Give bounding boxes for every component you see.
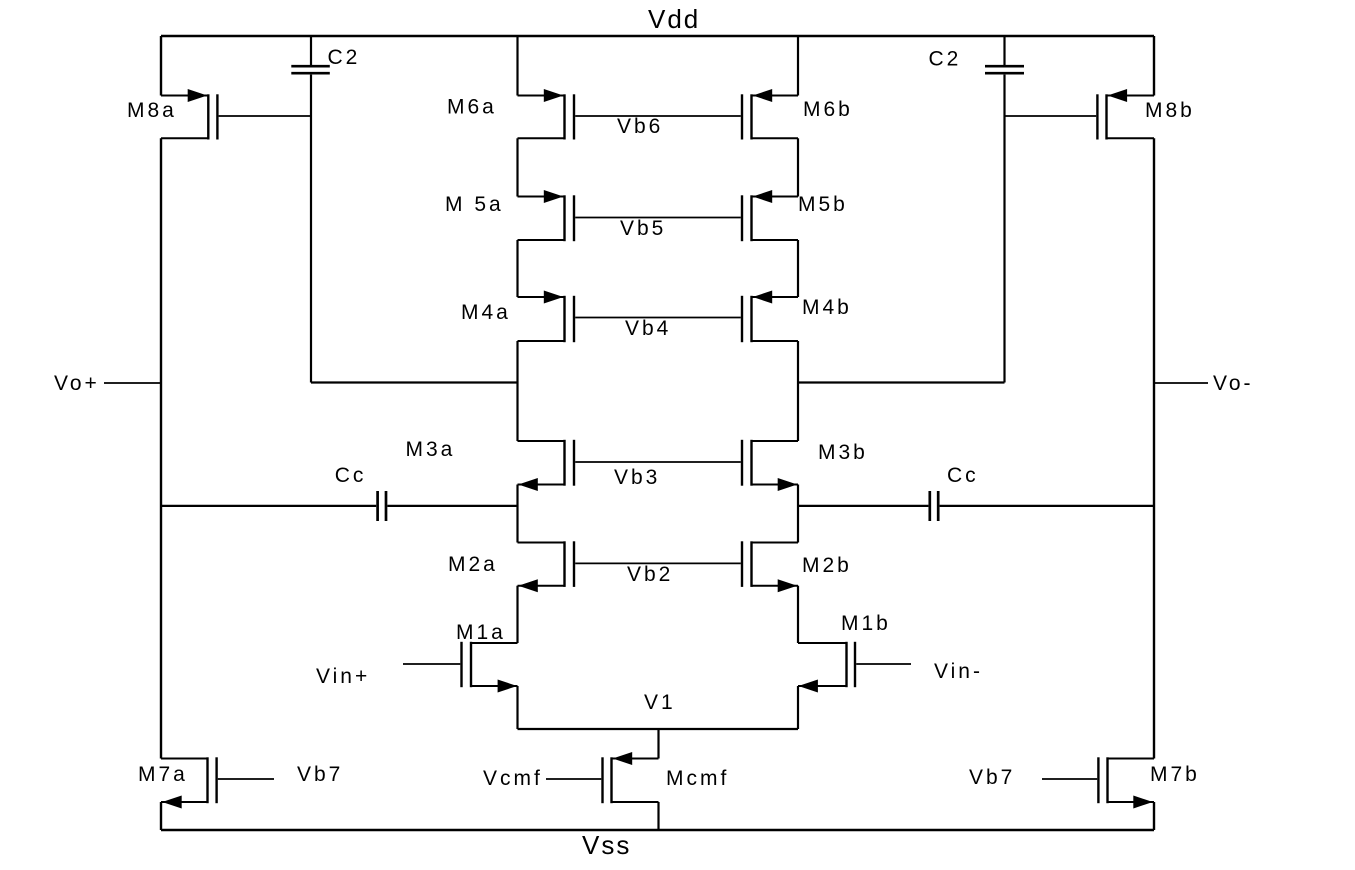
wire M2b drain node to Cc right bbox=[798, 505, 928, 507]
wire M1a gate stub Vin+ bbox=[403, 663, 460, 665]
svg-text:M1b: M1b bbox=[841, 612, 891, 635]
svg-text:Vb7: Vb7 bbox=[297, 763, 343, 786]
wire M3a source to M2a drain (Cc node) bbox=[516, 485, 518, 543]
label M4a bbox=[461, 301, 511, 324]
wire M1b source to V1 rail bbox=[797, 686, 799, 729]
svg-text:M8a: M8a bbox=[127, 99, 177, 122]
label Vb2 bbox=[627, 563, 673, 586]
wire Cc left to M2a drain node bbox=[387, 505, 517, 507]
label M3b bbox=[818, 441, 868, 464]
svg-text:Vb6: Vb6 bbox=[617, 115, 663, 138]
transistor M5b bbox=[742, 190, 798, 241]
transistor M1b bbox=[798, 642, 855, 693]
wire M3b source to M2b drain (Cc node) bbox=[797, 485, 799, 543]
wire Vdd rail bbox=[161, 35, 1154, 37]
label M3a bbox=[406, 438, 456, 461]
wire M5b source to M4b drain bbox=[797, 240, 799, 297]
wire M8b source to M7b drain bbox=[1153, 138, 1155, 758]
wire M4b source to M3b drain (Vo- node) bbox=[797, 341, 799, 441]
label M7b bbox=[1150, 763, 1200, 786]
wire Vo- node to M3b drain column bbox=[798, 381, 1005, 383]
transistor M2a bbox=[518, 541, 575, 592]
svg-text:M2a: M2a bbox=[448, 553, 498, 576]
label Cc (right) bbox=[947, 464, 979, 487]
label Vb7 (right) bbox=[969, 766, 1015, 789]
label Vb6 bbox=[617, 115, 663, 138]
svg-text:V1: V1 bbox=[644, 691, 676, 714]
wire Vdd to M8b drain bbox=[1153, 36, 1155, 96]
wire Vb2 net bbox=[575, 562, 741, 564]
label C2 (right) bbox=[929, 48, 962, 71]
svg-text:M1a: M1a bbox=[456, 621, 506, 644]
wire M2b source to M1b drain bbox=[797, 586, 799, 643]
label Vo+ bbox=[54, 372, 100, 395]
label M5b bbox=[798, 193, 848, 216]
wire Cc right to Vo- rail bbox=[940, 505, 1154, 507]
wire V1 net bbox=[518, 728, 799, 730]
node Vo+ terminal stub bbox=[104, 382, 161, 384]
wire V1 to Mcmf drain bbox=[657, 729, 659, 759]
transistor M6a bbox=[518, 89, 575, 140]
label M1a bbox=[456, 621, 506, 644]
wire M7b gate stub Vb7 bbox=[1042, 778, 1097, 780]
capacitor Cc (left) bbox=[378, 491, 386, 521]
label Vb3 bbox=[614, 466, 660, 489]
transistor M4b bbox=[742, 291, 798, 343]
svg-text:Mcmf: Mcmf bbox=[666, 767, 729, 790]
svg-text:M7a: M7a bbox=[138, 763, 188, 786]
wire C2 bottom plate down to Vo+ node bbox=[310, 75, 312, 383]
label M6b bbox=[803, 98, 853, 121]
transistor M7a bbox=[161, 757, 217, 808]
svg-text:M6b: M6b bbox=[803, 98, 853, 121]
label Vdd bbox=[648, 4, 700, 34]
transistor M8b bbox=[1097, 89, 1154, 140]
label V1 bbox=[644, 691, 676, 714]
wire M6b source to M5b drain bbox=[797, 138, 799, 196]
label M4b bbox=[802, 296, 852, 319]
wire M8a gate to C2 node bbox=[219, 115, 311, 117]
svg-text:M8b: M8b bbox=[1145, 99, 1195, 122]
svg-text:Cc: Cc bbox=[947, 464, 979, 487]
wire Vss rail bbox=[161, 829, 1154, 831]
transistor M2b bbox=[742, 541, 798, 592]
svg-text:M7b: M7b bbox=[1150, 763, 1200, 786]
node Vo- terminal stub bbox=[1154, 382, 1208, 384]
label Vb7 (left) bbox=[297, 763, 343, 786]
label Vin- bbox=[934, 660, 983, 683]
svg-text:Vcmf: Vcmf bbox=[483, 767, 543, 790]
svg-text:Vo+: Vo+ bbox=[54, 372, 100, 395]
transistor M7b bbox=[1098, 757, 1154, 808]
label Vb4 bbox=[625, 317, 671, 340]
capacitor C2 (right) bbox=[985, 66, 1024, 73]
label Vin+ bbox=[316, 665, 370, 688]
svg-text:M 5a: M 5a bbox=[445, 193, 504, 216]
svg-text:C2: C2 bbox=[328, 46, 361, 69]
svg-text:Vb2: Vb2 bbox=[627, 563, 673, 586]
capacitor Cc (right) bbox=[930, 491, 938, 521]
svg-text:Vin-: Vin- bbox=[934, 660, 983, 683]
transistor M3a bbox=[518, 440, 575, 491]
svg-text:M4a: M4a bbox=[461, 301, 511, 324]
label Mcmf bbox=[666, 767, 729, 790]
wire M2a source to M1a drain bbox=[516, 586, 518, 643]
label Cc (left) bbox=[335, 464, 367, 487]
label Vcmf bbox=[483, 767, 543, 790]
label M1b bbox=[841, 612, 891, 635]
svg-text:M4b: M4b bbox=[802, 296, 852, 319]
label M8b bbox=[1145, 99, 1195, 122]
label C2 (left) bbox=[328, 46, 361, 69]
wire Vb4 net bbox=[575, 317, 741, 319]
svg-text:Cc: Cc bbox=[335, 464, 367, 487]
svg-text:Vb4: Vb4 bbox=[625, 317, 671, 340]
svg-text:Vin+: Vin+ bbox=[316, 665, 370, 688]
wire Vdd to M6b drain bbox=[797, 36, 799, 96]
svg-text:Vo-: Vo- bbox=[1213, 372, 1254, 395]
label Vo- bbox=[1213, 372, 1254, 395]
wire Vo+ rail to Cc left plate bbox=[161, 505, 376, 507]
wire Vdd to M8a drain bbox=[160, 36, 162, 96]
wire Vb5 net bbox=[575, 217, 741, 219]
transistor M5a bbox=[518, 190, 575, 241]
transistor M6b bbox=[742, 89, 798, 140]
transistor M4a bbox=[518, 291, 575, 343]
wire Mcmf gate stub Vcmf bbox=[546, 778, 601, 780]
label M5a bbox=[445, 193, 504, 216]
transistor M8a bbox=[161, 89, 217, 140]
transistor Mcmf bbox=[603, 752, 659, 803]
label M6a bbox=[447, 96, 497, 119]
svg-text:Vb5: Vb5 bbox=[620, 217, 666, 240]
wire M7a source to Vss bbox=[160, 802, 162, 830]
svg-text:M2b: M2b bbox=[802, 554, 852, 577]
wire Vo+ node to M3a drain column bbox=[311, 381, 518, 383]
wire M1b gate stub Vin- bbox=[856, 663, 911, 665]
wire M7b source to Vss bbox=[1153, 802, 1155, 830]
wire Vb3 net bbox=[575, 461, 741, 463]
svg-text:Vb3: Vb3 bbox=[614, 466, 660, 489]
label Vb5 bbox=[620, 217, 666, 240]
wire M8b gate to C2 node bbox=[1005, 115, 1097, 117]
svg-text:M5b: M5b bbox=[798, 193, 848, 216]
svg-text:C2: C2 bbox=[929, 48, 962, 71]
wire C2 bottom plate down to Vo- node (right) bbox=[1003, 75, 1005, 383]
wire Vdd to C2 top plate (right) bbox=[1003, 36, 1005, 65]
wire Vdd to C2 top plate bbox=[310, 36, 312, 65]
capacitor C2 (left) bbox=[291, 66, 330, 73]
wire Vdd to M6a drain bbox=[516, 36, 518, 96]
label M8a bbox=[127, 99, 177, 122]
wire M7a gate stub Vb7 bbox=[218, 778, 274, 780]
label Vss bbox=[582, 830, 631, 860]
svg-text:Vss: Vss bbox=[582, 830, 631, 860]
wire M4a source to M3a drain (Vo+ node) bbox=[516, 341, 518, 441]
svg-text:M3a: M3a bbox=[406, 438, 456, 461]
svg-text:Vdd: Vdd bbox=[648, 4, 700, 34]
wire M8a source to M7a drain bbox=[160, 138, 162, 758]
label M2b bbox=[802, 554, 852, 577]
label M2a bbox=[448, 553, 498, 576]
svg-text:M3b: M3b bbox=[818, 441, 868, 464]
transistor M3b bbox=[742, 440, 798, 491]
svg-text:M6a: M6a bbox=[447, 96, 497, 119]
svg-text:Vb7: Vb7 bbox=[969, 766, 1015, 789]
wire Vb6 net bbox=[575, 115, 741, 117]
wire M6a source to M5a drain bbox=[516, 138, 518, 196]
label M7a bbox=[138, 763, 188, 786]
wire M5a source to M4a drain bbox=[516, 240, 518, 297]
wire M1a source to V1 rail bbox=[516, 686, 518, 729]
wire Mcmf source to Vss bbox=[657, 802, 659, 830]
transistor M1a bbox=[462, 642, 518, 693]
